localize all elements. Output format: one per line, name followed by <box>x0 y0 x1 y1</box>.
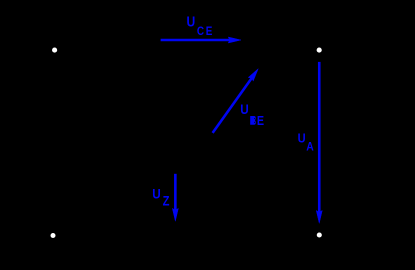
svg-text:U: U <box>240 101 248 117</box>
voltage arrow U_CE (horizontal, points right) <box>161 37 241 43</box>
voltage arrow U_A (vertical, points down) <box>316 62 322 223</box>
terminal bottom-right <box>317 232 322 237</box>
svg-text:Z: Z <box>163 194 170 209</box>
label U_BE <box>240 101 264 128</box>
terminal bottom-left <box>51 233 56 238</box>
svg-text:U: U <box>152 185 160 201</box>
terminal top-left <box>52 48 57 53</box>
label U_A <box>298 131 314 154</box>
svg-text:U: U <box>187 14 196 30</box>
svg-text:U: U <box>298 131 306 146</box>
label U_Z <box>152 185 170 209</box>
voltage arrow U_BE (diagonal, points up-right) <box>213 67 261 133</box>
label U_CE <box>187 14 213 38</box>
svg-text:E: E <box>206 25 213 38</box>
voltage arrow U_Z (vertical, points down) <box>172 174 178 221</box>
svg-text:C: C <box>197 25 204 38</box>
svg-text:A: A <box>306 141 314 154</box>
terminal top-right <box>317 48 322 53</box>
svg-text:E: E <box>257 113 264 128</box>
